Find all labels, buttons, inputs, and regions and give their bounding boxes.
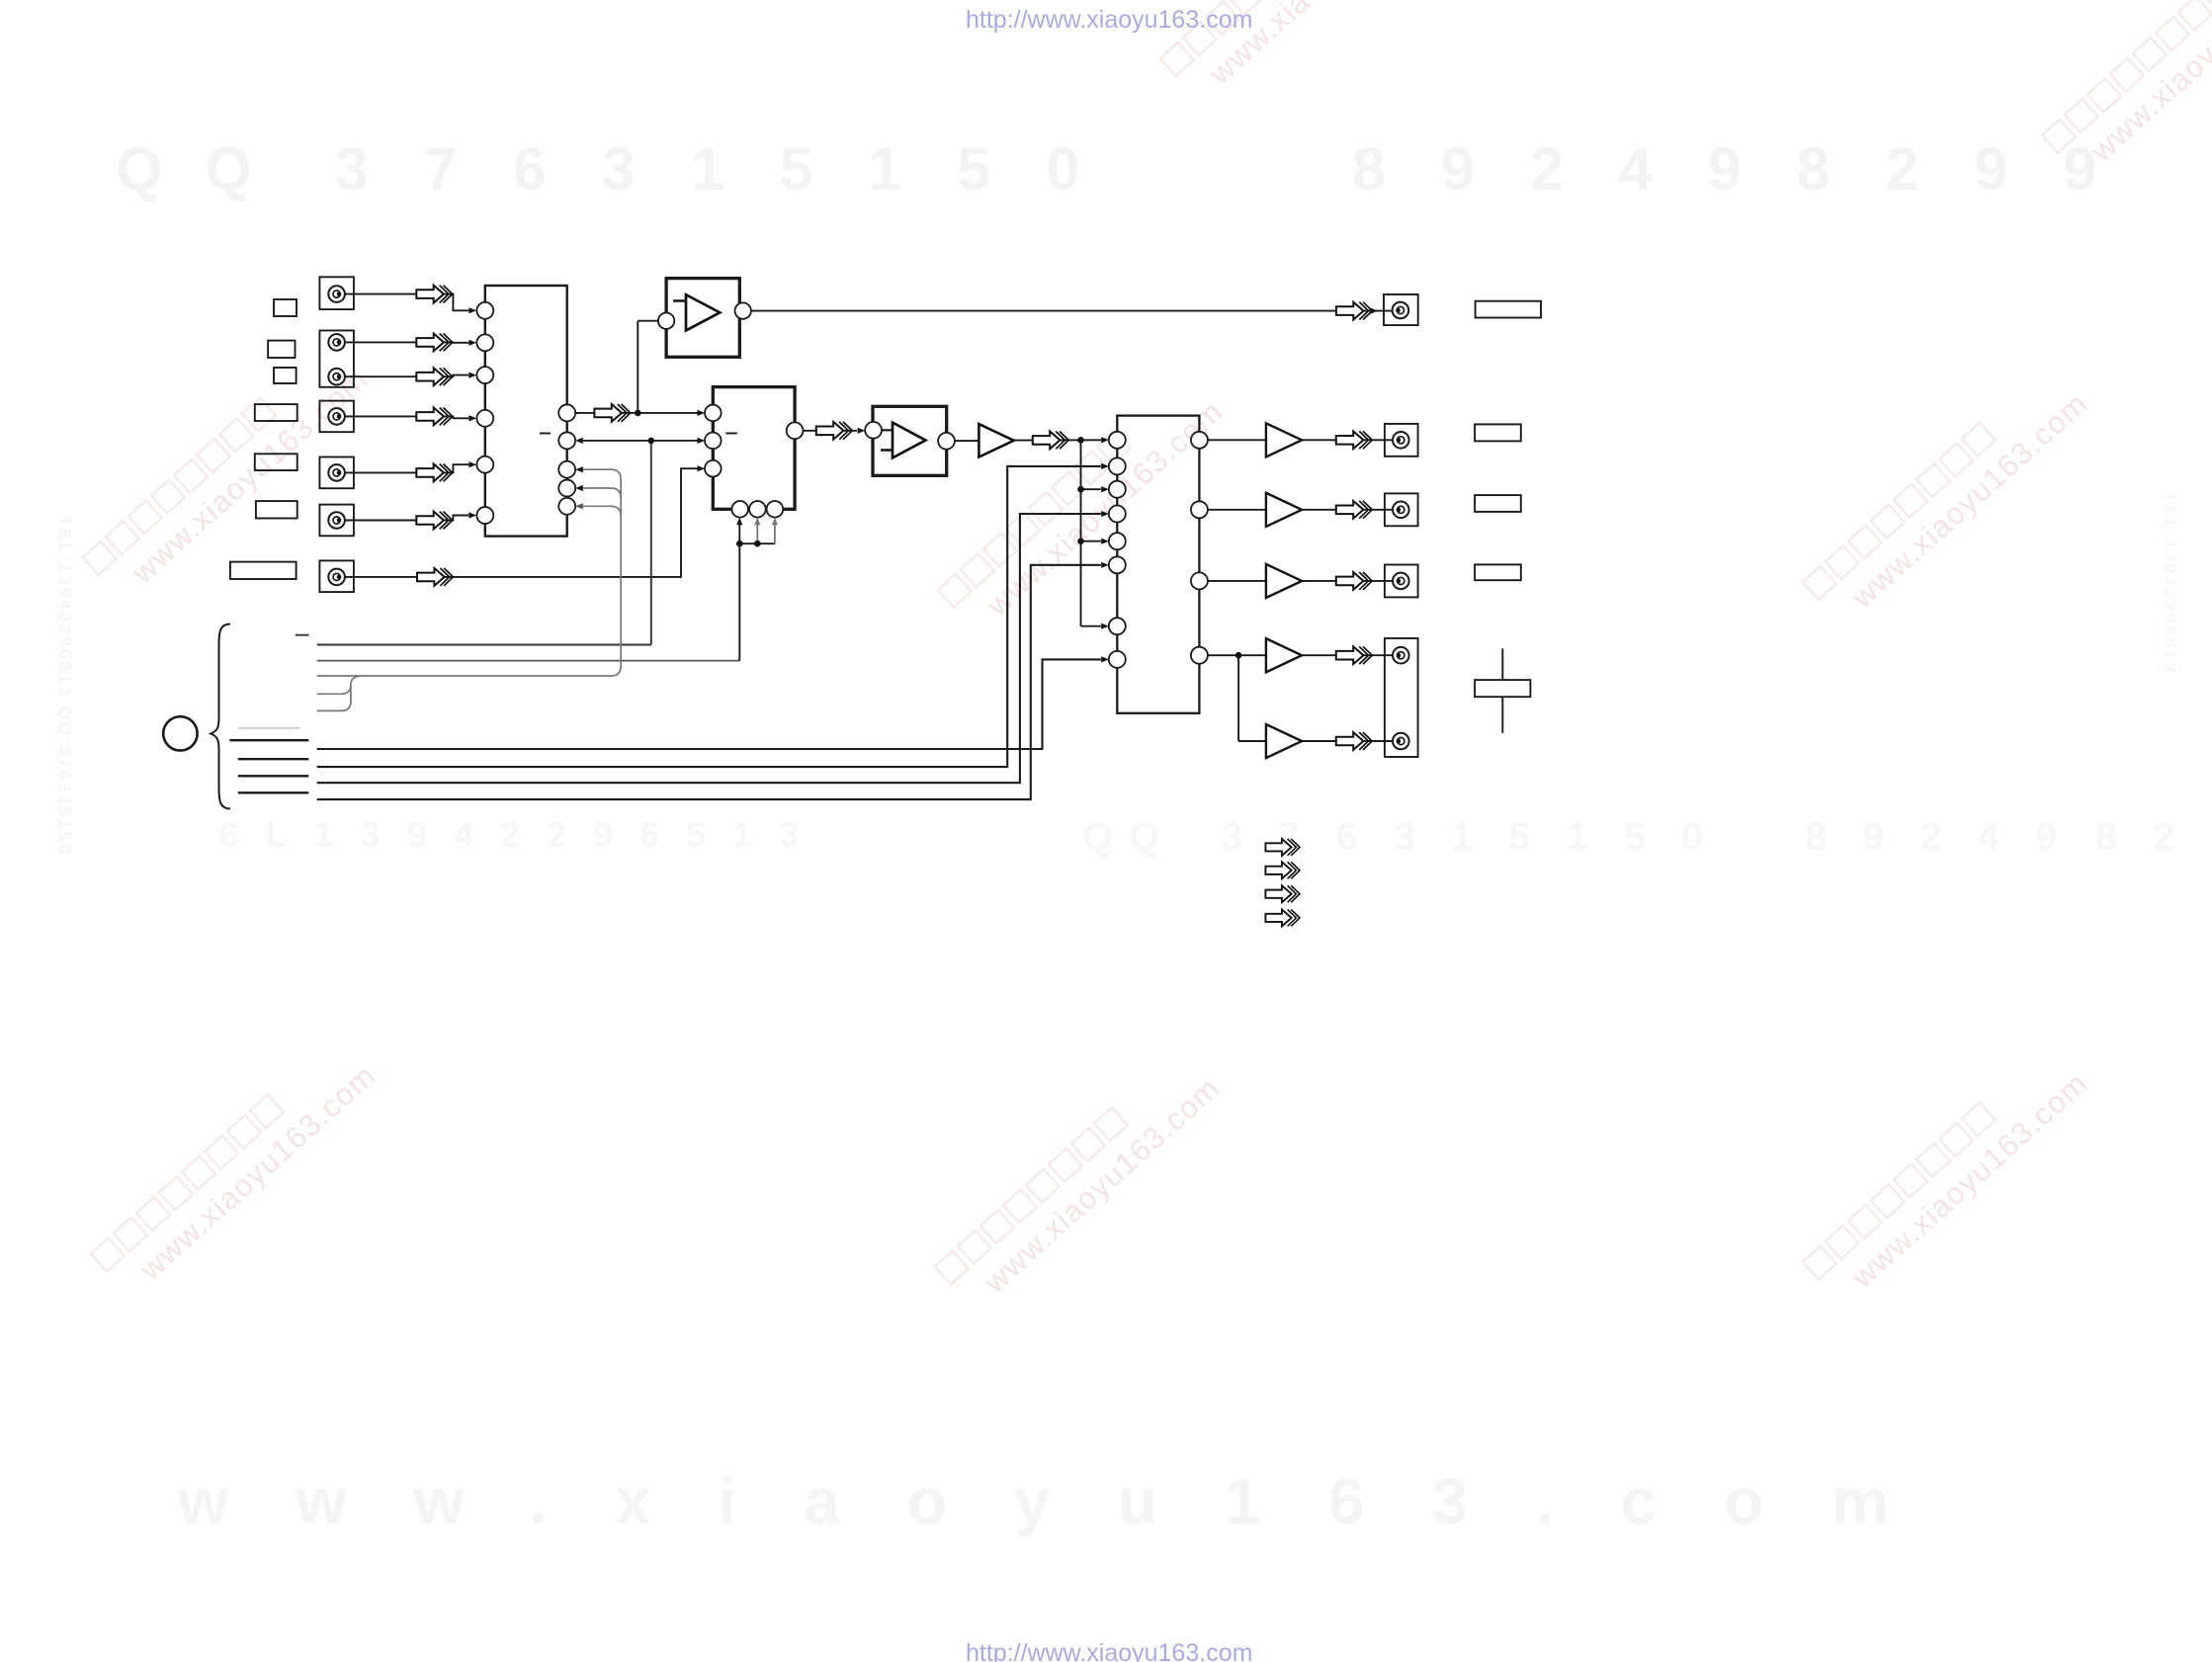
svg-text:www.xiaoyu163.com: www.xiaoyu163.com (177, 1464, 1956, 1537)
svg-text:http://www.xiaoyu163.com: http://www.xiaoyu163.com (966, 6, 1252, 34)
svg-text:8299: 8299 (2095, 815, 2212, 859)
svg-text:TEL:13942296513: TEL:13942296513 (2161, 492, 2179, 675)
svg-text:892498299: 892498299 (1352, 135, 2152, 203)
svg-text:376315150: 376315150 (335, 135, 1135, 203)
svg-text:http://www.xiaoyu163.com: http://www.xiaoyu163.com (966, 1639, 1252, 1662)
svg-text:TEL:13942296513 QQ:376315150: TEL:13942296513 QQ:376315150 (55, 516, 74, 857)
svg-text:QQ: QQ (116, 135, 295, 203)
svg-text:QQ: QQ (1082, 815, 1175, 859)
svg-text:89249: 89249 (1805, 815, 2092, 859)
svg-text:6L13942296513: 6L13942296513 (219, 814, 825, 855)
svg-text:376315150: 376315150 (1221, 815, 1739, 859)
